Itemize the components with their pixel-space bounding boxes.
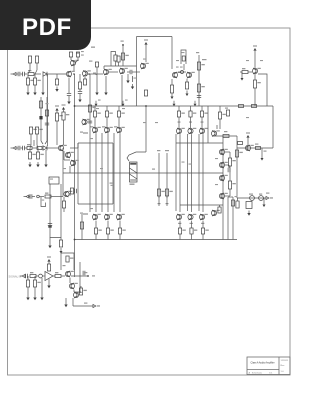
wire q3q4 [89,72,118,75]
wire x230 joins [225,152,230,196]
labels between ur legs [182,162,192,165]
wire ur bank verticals b [187,134,189,211]
ground under C7 [126,74,129,83]
resistor R11 up [35,127,42,148]
top-center loop top edge [137,36,173,38]
transistor Q5 [140,63,148,69]
resistor R5 up [35,56,39,74]
inline comp rail a [239,105,244,108]
resistor R3 hang [33,74,40,85]
resistor R19 [253,74,260,88]
branch x47 [45,97,49,144]
resistor R12m [55,113,62,145]
top-center loop left edge [136,37,138,107]
transistor Q35 [64,191,72,197]
resistor R41 [165,189,172,196]
PDF badge [0,0,91,50]
wire ul riser x113 [112,143,114,204]
transistor Q2b [82,70,90,76]
transistor Q3 [103,69,111,75]
transistor Q17 (4th ur) [211,125,219,137]
inductor L1 [249,194,254,201]
ground zobel [247,211,250,216]
output transistor Q15 upper-right [199,106,207,212]
bl loop current source [61,253,74,270]
transistor Q52 [73,292,81,298]
wire TR drop [254,53,256,68]
transistor Q6 [172,72,180,78]
wire y148 seg [237,147,273,149]
ground R6 [55,87,58,92]
capacitor C vas [225,165,230,172]
resistor R13 [121,53,128,60]
net label [91,47,95,48]
wire R12 bottom [115,61,117,66]
arrow onto rail b [122,100,128,107]
output transistor Q10 upper-left [90,106,101,212]
resistor R1 [28,70,41,76]
resistor R32 [218,205,221,213]
wire mid bus gap marks [152,169,155,170]
power arrow bl [47,256,51,264]
output arrow bl bottom [93,304,100,307]
ground bl [64,298,67,307]
wire ur bank verticals c [198,134,200,211]
output transistor Q24 lower-right [188,214,197,240]
diode D4 [39,274,45,278]
resistor inside box [144,90,147,107]
resistor R9 hang [36,148,43,159]
wire fb node [58,196,63,198]
diode D1 [43,72,66,76]
capacitor C2b [21,146,28,150]
wire ul bank verticals c [113,133,115,212]
wire Q5 base [137,71,141,73]
resistor R61 [53,272,65,278]
arrow under R21 [171,94,174,100]
cap branch box top [49,177,59,184]
resistor R16b [197,84,204,92]
arrow onto rail c [173,101,176,107]
output arrow bl top [83,271,95,277]
resistor R45 [59,238,62,248]
input terminal J3 [20,274,25,277]
base feed comp ul [80,132,88,134]
transistor Q feed [82,119,90,125]
comp below R40 [158,196,161,206]
inline comp y148 [255,144,261,150]
net label bl [84,272,87,273]
drawing border frame [8,28,291,375]
sense wire x167 [165,150,169,198]
staple loop right [181,50,186,64]
wire x78 connector [77,143,79,204]
arrow dn out [263,198,266,207]
arrow dn small [241,75,244,81]
comp below R41 [166,196,169,206]
wire ll base line [78,203,113,205]
transistor Q9b [70,160,78,166]
inline comp vas [223,131,229,138]
ground under D2 [131,84,134,89]
power arrow TR [253,45,257,53]
arrow under R22 [186,91,189,97]
resistor R10 up [29,127,36,148]
capacitor C7 [127,70,137,74]
wire ur base line [176,142,223,144]
ground R62 [26,287,29,300]
vertical x80 low [79,262,81,292]
input label [9,275,22,279]
ground cap branch [48,238,51,249]
wire x223 vertical [222,136,224,240]
wire center drop [145,106,147,152]
output terminal [266,193,273,200]
net label bl2 [84,303,87,304]
transistor Q32 [219,193,227,199]
transistor Q30b [219,162,227,168]
comp left q40 [238,142,243,145]
transistor Q50 [65,271,73,277]
resistor R21 [170,79,173,93]
comp pair x82 [81,51,84,56]
resistor on x90 [88,105,95,112]
wire ul bank verticals b [101,133,103,212]
junction dots rails [74,105,76,240]
input terminal J2 [11,146,17,149]
misc net labels [63,59,263,210]
net label2 [89,61,92,62]
diode D3 [43,146,58,150]
wire bottom rail V- [75,239,238,241]
wire Q7 loop right [258,74,267,106]
resistor R40 [157,189,164,196]
title block [247,357,290,375]
net label R15 [196,52,207,60]
power arrow mid a [55,105,59,113]
opamp triangle [45,272,53,289]
power arrow V+ top-center [144,39,148,62]
resistor R65 [74,286,87,295]
wire loop staple [111,52,116,67]
resistor R31 [218,106,225,129]
junction dot [122,44,124,46]
resistor x82 low [80,214,83,240]
terminal fb [24,195,30,198]
transistor Q9 [65,152,73,158]
wire mid node [64,151,70,160]
transistor Q51 [69,283,77,289]
capacitor C1 [16,72,20,76]
transistor Q2 [70,60,78,66]
wire bl out bottom [73,298,93,306]
inline comp rail b [252,105,257,108]
transistor Q31 [219,175,227,181]
wire ur bank verticals a [175,134,177,211]
svg-text:12/2011: 12/2011 [281,360,290,362]
output transistor Q12 upper-left [114,106,125,212]
ground x43 [41,76,44,95]
capacitor C10 [48,224,52,228]
dash label x95 [93,73,96,74]
resistor R7 [27,144,42,150]
transistor Q40 [245,145,253,151]
wire h at y66 [104,65,137,67]
wire [96,67,98,75]
resistor R6b [83,77,86,85]
wire y66 left [103,66,105,69]
wire x45 long drop [47,74,49,146]
inline circle comp [37,195,44,198]
arrow onto rail a [95,100,101,107]
resistor R8 hang [28,148,35,159]
svg-text:Class A Audio Amplifier: Class A Audio Amplifier [251,362,275,365]
wire ul bank verticals a [89,74,91,212]
wire vas top [215,135,237,137]
resistor R12 [114,55,117,61]
cap marks x90 [88,121,92,123]
resistor R18 [242,68,252,74]
label pair mid [176,67,183,68]
wire q pair [73,66,75,75]
transistor Q8 [58,145,66,151]
wire cap branch [50,184,61,238]
svg-text:A Schematic 1/1: A Schematic 1/1 [249,371,274,374]
wire x208 [207,106,209,143]
capacitor C2 [16,146,20,150]
resistor R64 [47,264,50,272]
inline comp q6 [181,71,184,74]
power arrow q40 [246,132,250,145]
resistor R34 [228,173,235,196]
wire x80 drop [78,74,82,93]
output transistor Q22 lower-left [116,214,125,240]
wire top rail V+ [75,105,274,107]
wire x118 stub [118,62,120,66]
sense wire x159 [157,150,160,198]
wire x69 drop [67,78,71,96]
wire q6 pair [178,64,186,72]
wire lr base line [180,204,223,206]
wire bl verticals [70,278,74,292]
wire R19 to rail [254,88,256,106]
resistor R14 [117,56,120,62]
output transistor Q21 lower-left [104,214,113,240]
ground x43 mid [44,150,47,167]
output transistor Q11 upper-left [102,106,113,212]
wire mid drops [69,166,71,173]
base feed comp ll [80,213,88,215]
output transistor Q13 upper-right [176,106,184,212]
ground g1 [95,75,98,95]
power arrow mid b [62,104,66,112]
capacitor C11 [28,194,35,198]
resistor R2 hang [26,74,33,85]
ground x42b [40,278,43,300]
wire R18 left [240,72,242,75]
label tp mid [110,183,113,186]
wire output line [237,197,266,199]
wire curl into fuse [127,152,146,161]
wire to bank [70,143,78,148]
ground R2 [26,85,29,95]
capacitor C1b [21,72,28,76]
transistor Q30 [219,149,227,155]
transistor Q7 [252,68,260,74]
node label N1 [121,41,124,42]
output transistor Q23 lower-right [176,214,185,240]
ground R3 [33,85,36,95]
arrow dn R45 [60,248,63,254]
ground x80 [78,94,81,102]
resistor stack wire [198,55,200,106]
ground x69 [67,96,70,104]
comp x72 [70,188,76,196]
wire x237 vertical [236,136,238,198]
resistor R6 hang [55,74,58,85]
transistor Q27 (4th lr) [211,210,219,216]
diode D2 [133,76,137,82]
transistor Q4 [119,68,127,74]
resistor R33 [228,152,235,173]
resistor R16 [197,62,204,70]
output transistor Q25 lower-right [199,214,208,240]
svg-text:SIGNAL IN: SIGNAL IN [9,275,22,279]
capacitor C3 [25,274,27,278]
resistor R63 hang [33,276,40,287]
comps above Q2 [69,52,79,63]
arrow dn y148 [261,148,267,161]
input terminal J1 [11,72,17,75]
comp at x228 top [231,196,237,206]
capacitor C8 [197,96,201,98]
resistor far right col [236,198,239,208]
fuse F1 [130,162,138,185]
resistor R60 [30,272,38,278]
resistor R47 [62,197,65,212]
resistor R13m [62,112,69,145]
wire mid horizontal bus [63,172,223,174]
wire q4 drop [121,75,123,106]
resistor R4 up [28,56,32,74]
output transistor Q20 lower-left [92,214,101,240]
pot bracket [41,197,46,207]
wire right corner drop [272,106,274,148]
output transistor Q14 upper-right [188,106,196,212]
resistor R50 [259,194,264,201]
ground R9 [36,162,39,167]
zobel box [246,202,252,209]
arrow onto rail d [194,101,197,107]
wire ul base line [78,142,113,144]
ground R8 [28,162,31,167]
small comps right bank [225,108,230,117]
wire left vertical bus [74,74,76,277]
resistor R62 hang [26,276,29,287]
ground g2 [104,76,107,95]
resistor R46 [45,193,58,199]
resistor R22 [185,79,188,89]
branch x41 [39,97,43,144]
small res [95,62,98,67]
ground R63 [33,287,36,300]
top-center loop right edge [171,37,173,70]
wire V stack x123 [122,44,124,66]
wire x228 x233 drops [228,197,233,240]
transistor Q6b [186,72,194,78]
wire bl out top [71,275,89,277]
transistor Q1 [66,71,74,77]
resistor R35 [235,150,242,157]
wire fb vertical x63 [62,148,64,197]
